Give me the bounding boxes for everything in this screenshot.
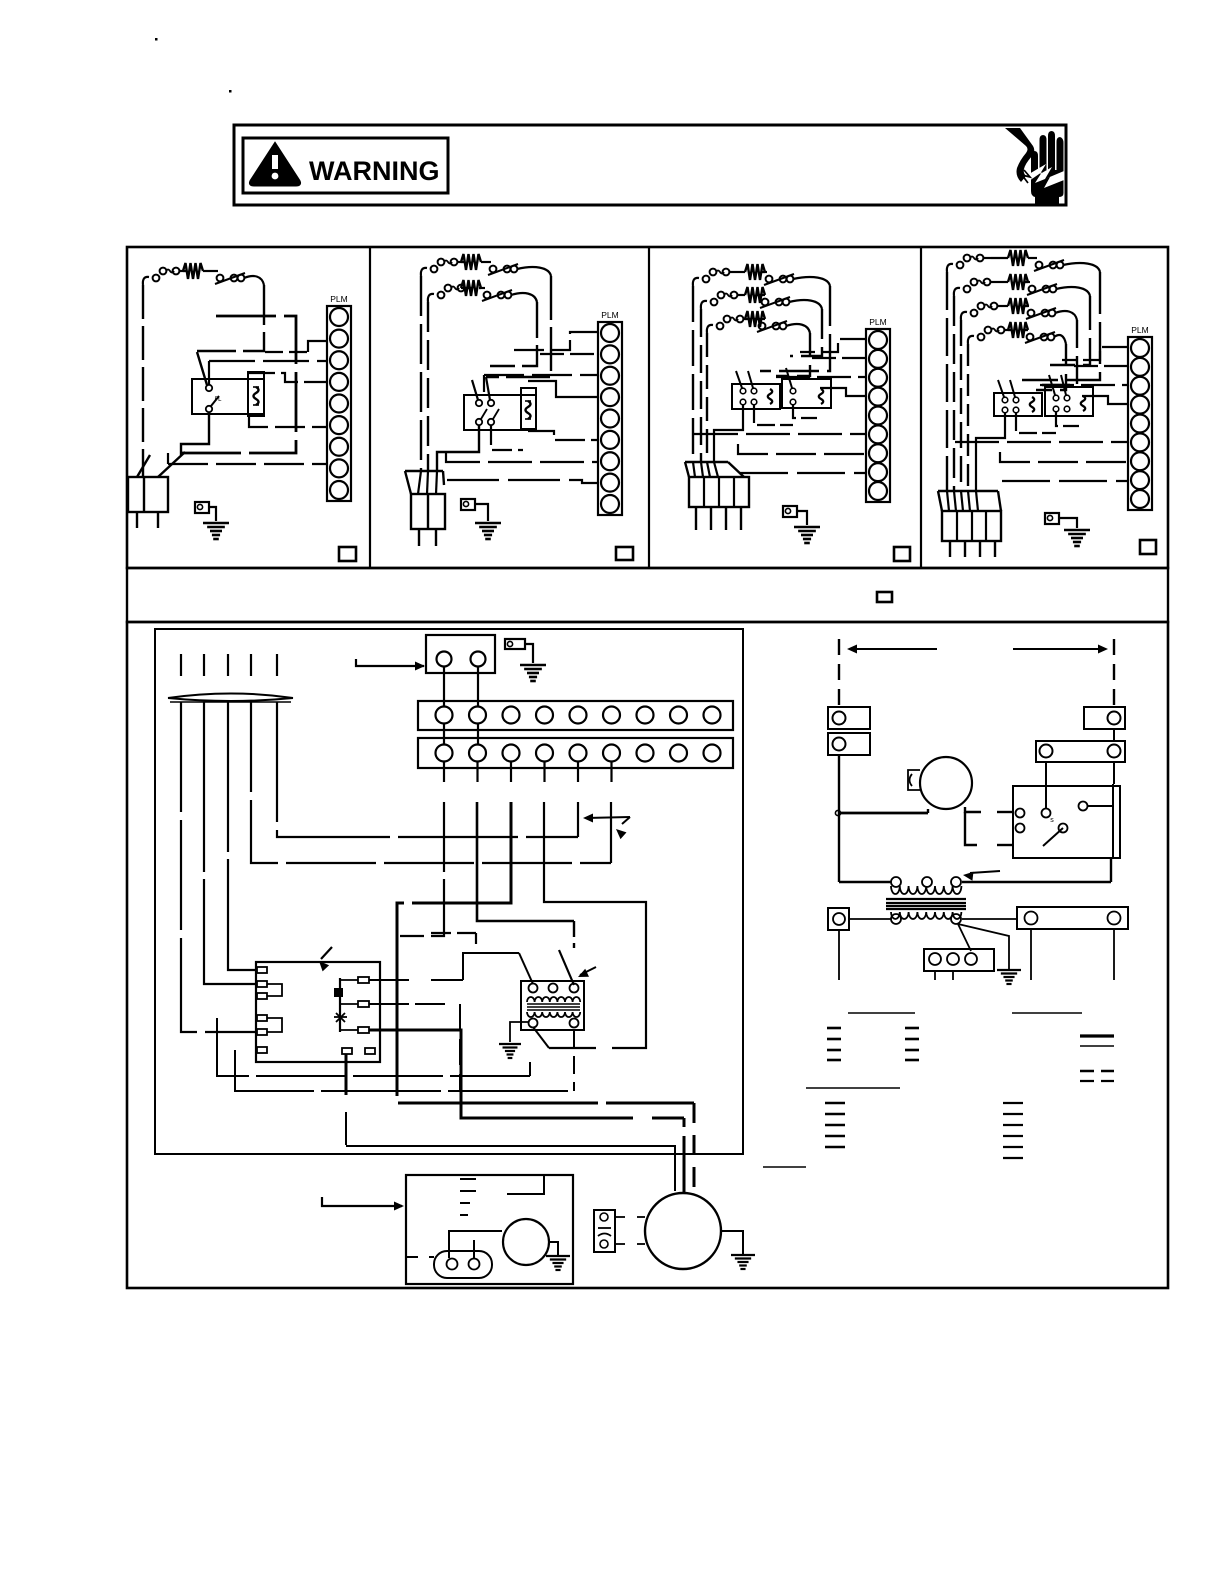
wire pair box to relay bbox=[1045, 762, 1047, 808]
thermostat wire stub 2 bbox=[203, 654, 205, 676]
relay box B (panel 3) bbox=[782, 379, 831, 408]
wires interlock to strips bbox=[443, 667, 445, 706]
wire c4 descender bbox=[544, 802, 646, 1048]
svg-text:PLM: PLM bbox=[330, 294, 347, 304]
plug funnel (panel 4) bbox=[938, 490, 998, 492]
transformer T1 ground bbox=[499, 1043, 521, 1045]
svg-text:WARNING: WARNING bbox=[309, 156, 440, 186]
legend heading line C bbox=[806, 1087, 900, 1089]
wire node to motor bbox=[839, 812, 928, 815]
coil A (panel 3) bbox=[768, 389, 773, 404]
legend strip band bbox=[127, 568, 1168, 622]
compressor capacitor box bbox=[594, 1210, 615, 1252]
svg-text:s: s bbox=[1050, 817, 1054, 824]
main diagram outer box bbox=[127, 622, 1168, 1288]
wire switch2 bottom (panel 2) bbox=[491, 425, 523, 450]
wire strip c8 run (panel 2) bbox=[447, 480, 598, 483]
wire element2 left leg (panel 2) bbox=[427, 302, 429, 471]
compressor ground symbol bbox=[731, 1254, 755, 1256]
wire strip c6 (panel 4) bbox=[955, 441, 1128, 443]
wire board pin R3 to compressor bbox=[369, 1030, 633, 1118]
fan relay box bbox=[1013, 786, 1120, 858]
board bottom pins bbox=[342, 1048, 352, 1054]
transformer T1 ground wire bbox=[510, 1022, 528, 1042]
relay box A (panel 4) bbox=[994, 393, 1042, 416]
transformer T2 primary coil bbox=[891, 886, 961, 894]
compressor motor bbox=[645, 1193, 721, 1269]
wire T3 to board pin1 bbox=[228, 702, 257, 970]
wire strip c6 (panel 3) bbox=[694, 433, 866, 435]
terminal box pair upper right bbox=[1036, 741, 1125, 762]
heater panels outer frame bbox=[127, 247, 1168, 568]
heating element HE3 (panel 4) bbox=[961, 312, 967, 320]
fan relay contacts bbox=[1016, 809, 1025, 818]
wire element1 right leg (panel 4) bbox=[1022, 272, 1100, 380]
wire T1 secondary out bbox=[533, 1027, 549, 1048]
coil A (panel 4) bbox=[1030, 397, 1035, 412]
panel divider 3-4 bbox=[920, 247, 922, 568]
legend dashes col C2 bbox=[1003, 1102, 1023, 1104]
wire element3 right leg (panel 3) bbox=[776, 333, 810, 376]
terminal strip upper bbox=[418, 701, 733, 730]
low volt box left bbox=[828, 908, 849, 930]
wire strip c3 (panel 4) bbox=[1040, 384, 1128, 386]
wire strip c2 (panel 3) bbox=[812, 357, 866, 359]
legend dashes col A1 bbox=[827, 1027, 841, 1030]
transformer T1 primary terminals bbox=[529, 984, 538, 993]
wire coil top to strip c4 (panel 1) bbox=[249, 373, 327, 382]
wire strip c1 (panel 3) bbox=[800, 339, 866, 352]
coil symbol (panel 1) bbox=[254, 387, 259, 405]
board pin jumper 2-3 bbox=[267, 984, 282, 996]
compressor ground wire bbox=[721, 1231, 743, 1255]
plug leads (panel 4) bbox=[949, 541, 951, 557]
sequencer coil box (panel 1) bbox=[248, 372, 264, 416]
legend heading line A bbox=[848, 1012, 915, 1014]
terminal strip PLM (panel 2) bbox=[598, 322, 622, 515]
terminal box L2a bbox=[1084, 707, 1125, 729]
plug connector (panel 2) bbox=[411, 494, 445, 529]
ground symbol T2 bbox=[997, 969, 1021, 971]
wire c1 descender bbox=[400, 802, 444, 936]
warning triangle icon bbox=[250, 144, 299, 185]
blower cap wires bbox=[449, 1231, 502, 1258]
wire strip c6 (panel 2) bbox=[528, 431, 598, 440]
heating element HE3 (panel 3) bbox=[707, 325, 713, 333]
blower text marks bbox=[460, 1178, 476, 1180]
terminal strip PLM (panel 3) bbox=[866, 329, 890, 502]
ground symbol (panel 4) bbox=[1064, 529, 1090, 532]
plug leads (panel 2) bbox=[418, 529, 420, 546]
plug leads (panel 3) bbox=[695, 507, 697, 530]
wire element2 left leg (panel 4) bbox=[953, 296, 955, 491]
svg-text:PLM: PLM bbox=[869, 317, 886, 327]
transformer T1 core bbox=[527, 1003, 580, 1005]
wire element2 right leg (panel 3) bbox=[790, 309, 822, 356]
board inner pins bbox=[358, 977, 369, 983]
wire switch top to strip c3 (panel 1) bbox=[208, 361, 210, 385]
legend key thick line bbox=[1080, 1034, 1114, 1037]
blower motor bbox=[503, 1219, 549, 1265]
thermostat wire stub 5 bbox=[276, 654, 278, 676]
low volt box right bbox=[1017, 907, 1128, 929]
blower motor ground wire bbox=[549, 1242, 558, 1256]
page speck 1 bbox=[155, 38, 158, 41]
wire lv left down bbox=[838, 930, 840, 980]
wire T1 to board pin5 bbox=[181, 702, 257, 1032]
coil B (panel 3) bbox=[819, 389, 824, 404]
dimension arrow left bbox=[851, 648, 937, 650]
ground sensor component (panel 3) bbox=[783, 506, 797, 517]
wire element3 left leg (panel 3) bbox=[706, 333, 708, 462]
transformer T2 core bbox=[886, 898, 966, 900]
wire strip c2 (panel 4) bbox=[1074, 365, 1128, 367]
legend key thin line bbox=[1080, 1045, 1114, 1047]
warning banner outer box bbox=[234, 125, 1066, 205]
heating element HE1 (panel 2) bbox=[421, 268, 427, 276]
line voltage dashed lead L1 bbox=[838, 639, 840, 707]
wire strip c7 run (panel 4) bbox=[1000, 452, 1128, 462]
thermostat wire stub 1 bbox=[180, 654, 182, 676]
blower entry dashes bbox=[406, 1256, 418, 1258]
wire T2 sec to ground bbox=[958, 924, 1009, 970]
board plus mark bbox=[334, 988, 343, 997]
wire T2 to board pin2 bbox=[204, 702, 257, 984]
wire board pin R2 bbox=[369, 1003, 445, 1005]
line voltage dashed lead L2 bbox=[1113, 639, 1115, 705]
relay A switches (panel 3) bbox=[740, 388, 746, 394]
svg-text:PLM: PLM bbox=[1131, 325, 1148, 335]
coil symbol (panel 2) bbox=[526, 401, 531, 419]
dimension arrow annotation bbox=[586, 817, 630, 818]
wire c5 descender bbox=[577, 802, 579, 837]
wire T2 to lv right bbox=[962, 918, 1017, 920]
blower motor BM bbox=[920, 757, 972, 809]
wire board pin R1 to transformer bbox=[369, 979, 409, 981]
wire lv left to T2 bbox=[849, 918, 891, 920]
board star mark bbox=[336, 1013, 345, 1022]
wire element3 right leg (panel 4) bbox=[1040, 320, 1077, 385]
transformer T1 secondary terminals bbox=[529, 1019, 538, 1028]
ground component near interlock bbox=[505, 639, 525, 649]
panel 2 id square bbox=[616, 547, 633, 560]
ground symbol (panel 1) bbox=[203, 522, 229, 525]
wire lower run B bbox=[235, 1050, 574, 1091]
wire element3 left leg (panel 4) bbox=[960, 320, 962, 491]
relay box (panel 2) bbox=[464, 395, 536, 430]
cable grommet lens bbox=[168, 694, 293, 699]
terminal box L1b bbox=[828, 733, 870, 755]
ground sensor component (panel 2) bbox=[461, 499, 475, 510]
terminal box L1a bbox=[828, 707, 870, 729]
plug funnel (panel 2) bbox=[405, 470, 443, 472]
transformer T2 secondary terminals bbox=[891, 914, 901, 924]
heating element HE1 (panel 4) bbox=[947, 264, 953, 272]
wire lower run A bbox=[217, 1018, 530, 1076]
ground symbol near interlock bbox=[520, 664, 546, 667]
arrow to transformer T1 bbox=[580, 967, 596, 975]
wires lv right down bbox=[1030, 929, 1032, 980]
blower ground symbol bbox=[546, 1255, 570, 1257]
wire coil bottom to strip c6 (panel 1) bbox=[249, 416, 327, 427]
wire element1 left leg (panel 4) bbox=[946, 272, 948, 491]
panel 1 id square bbox=[339, 547, 356, 561]
ground sensor component (panel 1) bbox=[195, 502, 209, 513]
wire strip c4 (panel 2) bbox=[528, 381, 598, 397]
blower compartment box bbox=[406, 1175, 573, 1284]
transformer T1 primary coil bbox=[527, 997, 580, 1002]
terminal strip lower bbox=[418, 738, 733, 768]
wire strip c8 run (panel 3) bbox=[740, 472, 866, 474]
wire element2 left leg (panel 3) bbox=[700, 309, 702, 462]
motor leads bbox=[927, 809, 929, 813]
wire element right leg (panel 1) bbox=[197, 285, 264, 351]
wire strip c2 (panel 2) bbox=[540, 353, 598, 355]
wire strip c4 (panel 3) bbox=[820, 388, 866, 396]
panel 3 id square bbox=[894, 547, 910, 561]
wire element4 left leg (panel 4) bbox=[967, 344, 969, 491]
wire element left leg (panel 1) bbox=[142, 285, 144, 477]
wire strip c4 (panel 4) bbox=[1082, 396, 1128, 404]
panel divider 1-2 bbox=[369, 247, 371, 568]
thermostat wire stub 4 bbox=[250, 654, 252, 676]
wire strip c3 (panel 2) bbox=[484, 374, 598, 376]
legend key dashed line 2 bbox=[1080, 1080, 1114, 1082]
plug connector (panel 3) bbox=[689, 477, 749, 507]
legend stray line bbox=[763, 1166, 806, 1168]
wire element1 right leg (panel 3) bbox=[760, 286, 830, 371]
heating element HE2 (panel 4) bbox=[954, 288, 960, 296]
plug connector (panel 4) bbox=[942, 511, 1001, 541]
sequencer coil box (panel 2) bbox=[521, 388, 536, 429]
wire bottom run to strip c8 (panel 1) bbox=[168, 463, 327, 465]
relay box B (panel 4) bbox=[1045, 387, 1093, 416]
plug funnel (panel 3) bbox=[685, 461, 728, 463]
door interlock terminal box bbox=[426, 635, 495, 673]
relay B switches (panel 4) bbox=[1053, 395, 1059, 401]
transformer T2 primary terminals bbox=[891, 877, 901, 887]
wire switch1 bottom (panel 2) bbox=[437, 425, 479, 471]
wire T2 to relay bbox=[962, 881, 1111, 883]
thermostat wire stub 3 bbox=[227, 654, 229, 676]
wire T4 to strip2-c6 bbox=[251, 702, 611, 863]
wire L1 to node bbox=[838, 755, 840, 813]
arrow to control board bbox=[321, 947, 332, 959]
wire c6 descender bbox=[610, 802, 612, 863]
ground symbol (panel 3) bbox=[794, 526, 820, 529]
strip2 stubs bbox=[443, 762, 445, 782]
wire element1 right leg (panel 2) bbox=[486, 276, 551, 377]
heating element HE1 (panel 3) bbox=[693, 278, 699, 286]
plug connector P1 (panel 1) bbox=[128, 477, 168, 512]
blower wiring L bbox=[507, 1176, 544, 1194]
wire node to transformer T2 bbox=[838, 813, 840, 882]
relay switches (panel 2) bbox=[476, 400, 482, 406]
warning label box bbox=[243, 138, 448, 193]
wire strip c1 (panel 2) bbox=[512, 332, 598, 350]
wire element1 left leg (panel 3) bbox=[692, 286, 694, 462]
fan relay aux contact bbox=[1079, 802, 1088, 811]
wires tstat box down bbox=[934, 971, 936, 980]
relay B switches (panel 3) bbox=[790, 388, 796, 394]
motor run capacitor bbox=[908, 770, 920, 790]
relay switch FL (panel 1) bbox=[206, 385, 212, 391]
wire strip c3 (panel 3) bbox=[776, 376, 866, 378]
legend dashes col A2 bbox=[905, 1027, 919, 1030]
transformer T2 secondary coil bbox=[891, 912, 961, 919]
wire node to strip c2 (panel 1) bbox=[265, 351, 308, 353]
wire L2a to pair box bbox=[1113, 729, 1115, 741]
control board bbox=[256, 962, 380, 1062]
electric shock hand icon bbox=[1005, 128, 1064, 204]
svg-text:FL: FL bbox=[214, 397, 222, 403]
relay box A (panel 3) bbox=[732, 384, 780, 409]
legend key square bbox=[877, 592, 892, 602]
thermostat terminal box bbox=[924, 949, 994, 971]
legend key dashed line 1 bbox=[1080, 1070, 1114, 1073]
plug entry wires (panel 1) bbox=[137, 455, 150, 477]
transformer T1 secondary coil bbox=[527, 1012, 580, 1017]
routing dash jog bbox=[431, 932, 476, 934]
terminal holes bbox=[437, 652, 452, 667]
wire strip c1 feeder (panel 1) bbox=[181, 316, 296, 453]
wire switch to plug (panel 1) bbox=[181, 412, 209, 455]
board edge pins bbox=[257, 967, 267, 973]
plug leads (panel 1) bbox=[136, 512, 138, 528]
wire T5 to strip2-c5 bbox=[277, 702, 578, 837]
compressor cap leads bbox=[615, 1216, 625, 1218]
wire board bottom to blower bbox=[345, 1054, 348, 1095]
wire strip c7 run (panel 3) bbox=[738, 444, 866, 454]
wire element1 left leg (panel 2) bbox=[420, 276, 422, 471]
ground symbol (panel 2) bbox=[475, 522, 501, 525]
board pin jumper 4-5 bbox=[267, 1018, 282, 1032]
low-voltage inner box bbox=[155, 629, 743, 1154]
terminal strip PLM (panel 1) bbox=[327, 306, 351, 501]
wire element4 right leg (panel 4) bbox=[1036, 344, 1066, 390]
arrow to interlock box bbox=[356, 659, 424, 666]
wire element2 right leg (panel 4) bbox=[1050, 296, 1090, 365]
transformer T1 box bbox=[521, 981, 584, 1030]
wire strip c1 (panel 4) bbox=[1062, 347, 1128, 360]
heating element HE1 with fuse links (panel 1) bbox=[143, 277, 149, 285]
panel 4 id square bbox=[1140, 540, 1156, 554]
legend dashes col C1 bbox=[825, 1102, 845, 1105]
heating element HE2 (panel 3) bbox=[701, 301, 707, 309]
wire switches bottom (panel 4) bbox=[976, 413, 1005, 491]
heating element HE2 (panel 2) bbox=[428, 294, 434, 302]
coil B (panel 4) bbox=[1081, 396, 1086, 411]
arrow to blower box bbox=[322, 1197, 402, 1206]
blower capacitor oval bbox=[434, 1251, 492, 1278]
wire T2 sec to tstat box bbox=[958, 924, 971, 951]
relay FL1 box (panel 1) bbox=[192, 379, 264, 414]
wire c3 descender thick bbox=[397, 802, 694, 1103]
wire strip c8 run (panel 4) bbox=[1002, 480, 1128, 482]
wire strip c7 run (panel 2) bbox=[446, 452, 598, 462]
terminal strip PLM (panel 4) bbox=[1128, 337, 1152, 510]
wire L2 through relay bbox=[1113, 762, 1115, 784]
panel divider 2-3 bbox=[648, 247, 650, 568]
svg-text:PLM: PLM bbox=[601, 310, 618, 320]
relay A switches (panel 4) bbox=[1002, 397, 1008, 403]
wire c2 descender bbox=[477, 802, 574, 921]
dimension arrow right bbox=[1013, 648, 1104, 650]
ground sensor component (panel 4) bbox=[1045, 513, 1059, 524]
page speck 2 bbox=[229, 90, 232, 93]
arrow to transformer T2 bbox=[970, 871, 1000, 873]
wire switches bottom (panel 3) bbox=[714, 405, 743, 462]
wire c3 to compressor bbox=[693, 1103, 696, 1191]
legend heading line B bbox=[1012, 1012, 1082, 1014]
wire element2 right leg (panel 2) bbox=[490, 302, 537, 366]
heating element HE4 (panel 4) bbox=[968, 336, 974, 344]
